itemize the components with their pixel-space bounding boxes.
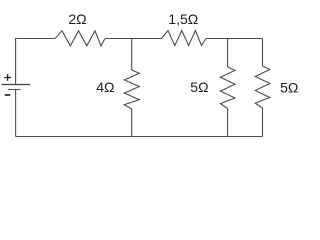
wire: right rail top stub	[262, 39, 264, 67]
wire: R3 bottom stub	[131, 109, 133, 137]
battery V1 negative plate (short)	[8, 89, 21, 91]
wire: left rail bottom (battery to bottom rail)	[15, 90, 17, 137]
wire: left rail top + top wire segment to R1	[16, 39, 55, 85]
wire: R4 bottom stub	[227, 109, 229, 137]
wire: top right from R2 to corner	[206, 38, 263, 40]
wire: top between R1 and R2	[105, 38, 162, 40]
svg-text:1,5Ω: 1,5Ω	[168, 11, 198, 27]
resistor R5 5Ω (vertical zigzag, right rail)	[255, 66, 270, 108]
resistor R2 1,5Ω (horizontal zigzag)	[162, 31, 207, 46]
wire: branch node to R4 top stub	[227, 39, 229, 68]
wire: bottom rail	[16, 136, 263, 138]
battery V1 minus sign	[5, 94, 10, 96]
svg-text:5Ω: 5Ω	[190, 79, 208, 95]
battery V1 positive plate (long)	[2, 84, 31, 86]
svg-text:2Ω: 2Ω	[68, 11, 86, 27]
wire: right rail bottom stub	[262, 108, 264, 137]
wire: branch node to R3 top stub	[131, 39, 133, 71]
svg-text:5Ω: 5Ω	[280, 79, 298, 95]
resistor R1 2Ω (horizontal zigzag)	[55, 31, 105, 46]
svg-text:4Ω: 4Ω	[96, 79, 114, 95]
battery V1 plus sign	[4, 74, 11, 81]
resistor R4 5Ω (vertical zigzag)	[220, 67, 235, 109]
resistor R3 4Ω (vertical zigzag)	[124, 70, 139, 109]
